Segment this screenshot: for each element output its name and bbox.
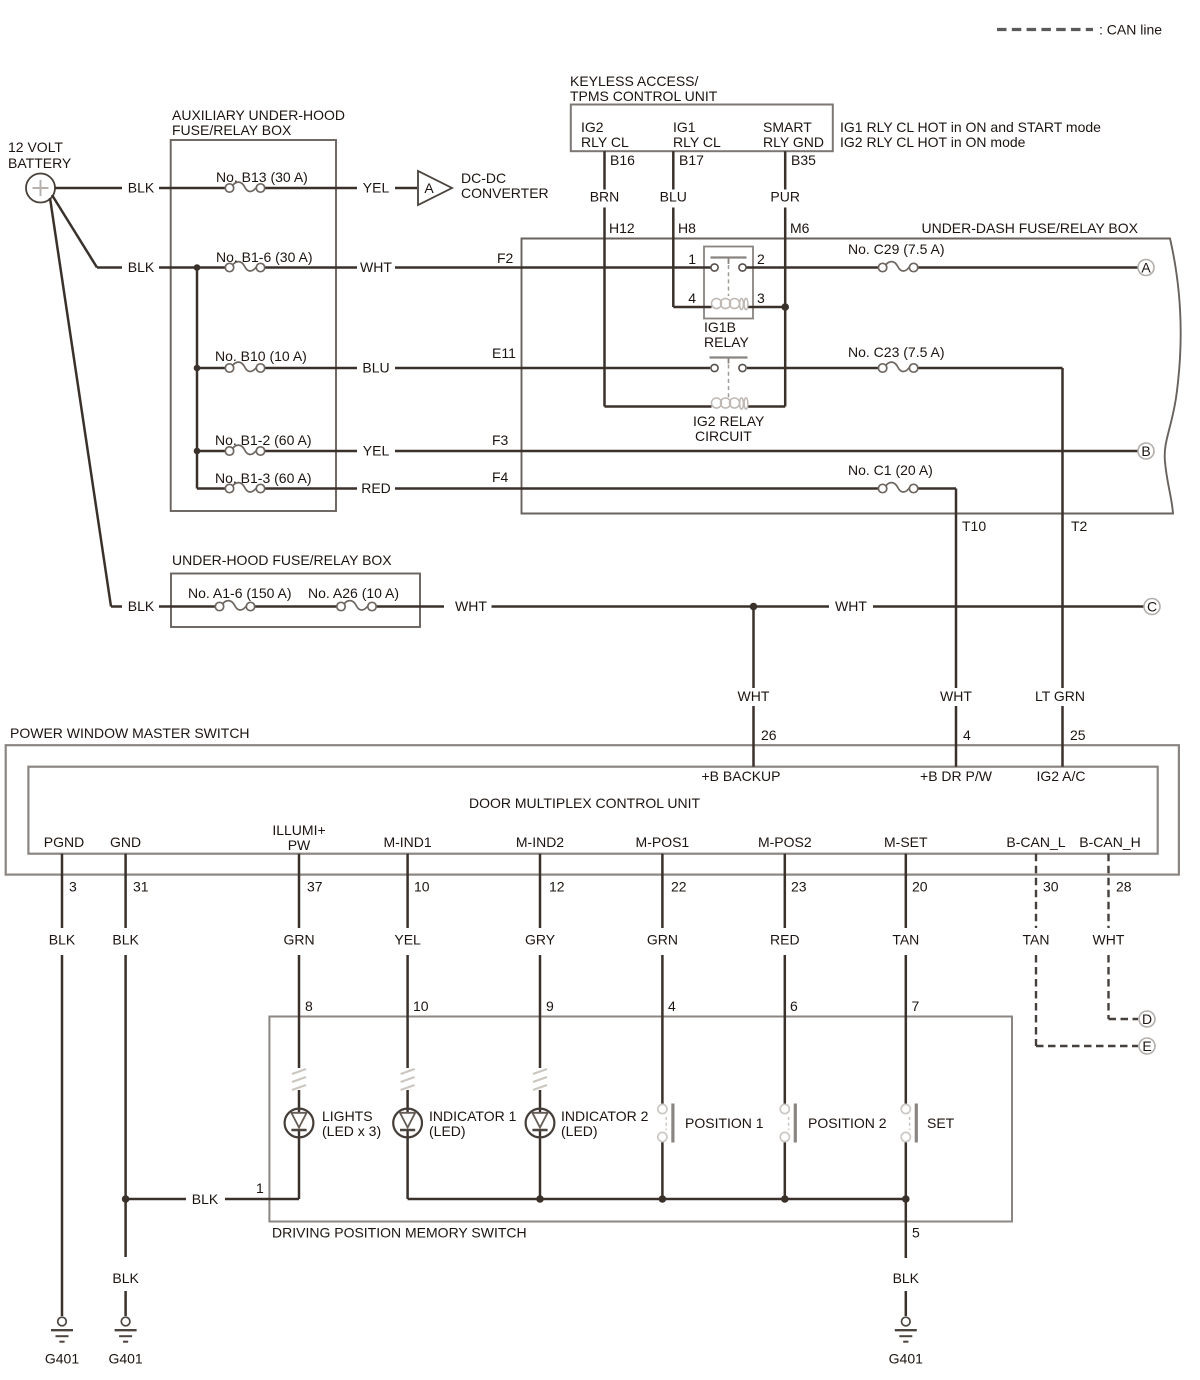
svg-text:F3: F3 bbox=[492, 432, 509, 448]
svg-text:KEYLESS ACCESS/: KEYLESS ACCESS/ bbox=[570, 73, 699, 89]
svg-text:IG1 RLY CL HOT in ON and START: IG1 RLY CL HOT in ON and START mode bbox=[840, 119, 1101, 135]
svg-text:T10: T10 bbox=[962, 518, 986, 534]
svg-text:GND: GND bbox=[110, 834, 141, 850]
svg-text:7: 7 bbox=[912, 998, 920, 1014]
svg-text:YEL: YEL bbox=[363, 180, 390, 196]
svg-text:4: 4 bbox=[668, 998, 676, 1014]
svg-text:YEL: YEL bbox=[363, 443, 390, 459]
svg-text:2: 2 bbox=[757, 251, 765, 267]
svg-text:TAN: TAN bbox=[1023, 932, 1050, 948]
svg-text:WHT: WHT bbox=[738, 688, 770, 704]
svg-text:SMART: SMART bbox=[763, 119, 812, 135]
svg-text:No. B13 (30 A): No. B13 (30 A) bbox=[216, 169, 308, 185]
svg-text:M-POS1: M-POS1 bbox=[636, 834, 690, 850]
svg-text:H12: H12 bbox=[609, 220, 635, 236]
svg-text:RED: RED bbox=[361, 480, 391, 496]
svg-text:PUR: PUR bbox=[770, 189, 800, 205]
svg-text:BRN: BRN bbox=[590, 189, 620, 205]
svg-text:D: D bbox=[1142, 1011, 1152, 1027]
svg-text:37: 37 bbox=[307, 879, 323, 895]
svg-text:RLY CL: RLY CL bbox=[581, 134, 629, 150]
svg-text:BLU: BLU bbox=[362, 360, 389, 376]
svg-text:E: E bbox=[1142, 1038, 1151, 1054]
svg-text:DOOR MULTIPLEX CONTROL UNIT: DOOR MULTIPLEX CONTROL UNIT bbox=[469, 795, 700, 811]
svg-text:POSITION 1: POSITION 1 bbox=[685, 1115, 764, 1131]
svg-text:DRIVING POSITION MEMORY SWITCH: DRIVING POSITION MEMORY SWITCH bbox=[272, 1225, 527, 1241]
svg-text:BLK: BLK bbox=[893, 1270, 920, 1286]
svg-text:PGND: PGND bbox=[44, 834, 84, 850]
svg-text:TPMS CONTROL UNIT: TPMS CONTROL UNIT bbox=[570, 88, 718, 104]
svg-text:BLU: BLU bbox=[660, 189, 687, 205]
svg-text:25: 25 bbox=[1070, 727, 1086, 743]
svg-text:B17: B17 bbox=[679, 152, 704, 168]
svg-text:12: 12 bbox=[549, 879, 565, 895]
svg-text:DC-DC: DC-DC bbox=[461, 170, 506, 186]
svg-text:INDICATOR 2: INDICATOR 2 bbox=[561, 1108, 649, 1124]
svg-text:M-POS2: M-POS2 bbox=[758, 834, 812, 850]
svg-text:20: 20 bbox=[912, 879, 928, 895]
svg-text:10: 10 bbox=[414, 879, 430, 895]
svg-text:ILLUMI+: ILLUMI+ bbox=[272, 822, 325, 838]
svg-text:LT GRN: LT GRN bbox=[1035, 688, 1085, 704]
svg-text:BLK: BLK bbox=[128, 180, 155, 196]
svg-text:RED: RED bbox=[770, 932, 800, 948]
svg-text:IG2 RLY CL HOT in ON mode: IG2 RLY CL HOT in ON mode bbox=[840, 134, 1026, 150]
svg-text:YEL: YEL bbox=[394, 932, 421, 948]
svg-text:IG1B: IG1B bbox=[704, 319, 736, 335]
svg-text:WHT: WHT bbox=[835, 598, 867, 614]
svg-text:5: 5 bbox=[912, 1225, 920, 1241]
svg-text:WHT: WHT bbox=[360, 259, 392, 275]
svg-text:TAN: TAN bbox=[892, 932, 919, 948]
svg-text:UNDER-DASH FUSE/RELAY BOX: UNDER-DASH FUSE/RELAY BOX bbox=[921, 220, 1138, 236]
svg-text:POSITION 2: POSITION 2 bbox=[808, 1115, 887, 1131]
svg-text:M-IND1: M-IND1 bbox=[383, 834, 431, 850]
svg-text:: CAN line: : CAN line bbox=[1099, 22, 1162, 38]
svg-text:BLK: BLK bbox=[49, 932, 76, 948]
svg-text:PW: PW bbox=[288, 837, 311, 853]
svg-text:30: 30 bbox=[1043, 879, 1059, 895]
svg-text:No. B1-2 (60 A): No. B1-2 (60 A) bbox=[215, 432, 312, 448]
svg-text:A: A bbox=[1141, 260, 1151, 276]
svg-text:No. B1-6 (30 A): No. B1-6 (30 A) bbox=[216, 249, 313, 265]
svg-text:IG2: IG2 bbox=[581, 119, 604, 135]
svg-text:RELAY: RELAY bbox=[704, 334, 750, 350]
svg-text:(LED): (LED) bbox=[561, 1123, 598, 1139]
svg-text:WHT: WHT bbox=[455, 598, 487, 614]
svg-text:6: 6 bbox=[790, 998, 798, 1014]
svg-text:23: 23 bbox=[791, 879, 807, 895]
svg-text:B-CAN_L: B-CAN_L bbox=[1006, 834, 1065, 850]
svg-text:1: 1 bbox=[688, 251, 696, 267]
svg-text:No. A26 (10 A): No. A26 (10 A) bbox=[308, 585, 399, 601]
svg-text:BLK: BLK bbox=[128, 598, 155, 614]
svg-text:4: 4 bbox=[688, 290, 696, 306]
svg-text:BLK: BLK bbox=[128, 259, 155, 275]
svg-text:(LED x 3): (LED x 3) bbox=[322, 1123, 381, 1139]
svg-text:WHT: WHT bbox=[940, 688, 972, 704]
svg-text:G401: G401 bbox=[108, 1351, 142, 1367]
svg-text:M6: M6 bbox=[790, 220, 810, 236]
svg-text:BATTERY: BATTERY bbox=[8, 155, 72, 171]
svg-text:INDICATOR 1: INDICATOR 1 bbox=[429, 1108, 517, 1124]
svg-text:POWER WINDOW MASTER SWITCH: POWER WINDOW MASTER SWITCH bbox=[10, 725, 250, 741]
svg-text:IG2 RELAY: IG2 RELAY bbox=[693, 413, 765, 429]
svg-text:B: B bbox=[1141, 443, 1150, 459]
svg-text:WHT: WHT bbox=[1093, 932, 1125, 948]
svg-text:RLY CL: RLY CL bbox=[673, 134, 721, 150]
svg-text:AUXILIARY UNDER-HOOD: AUXILIARY UNDER-HOOD bbox=[172, 107, 345, 123]
svg-text:No. B10 (10 A): No. B10 (10 A) bbox=[215, 348, 307, 364]
svg-text:No. C1 (20 A): No. C1 (20 A) bbox=[848, 462, 933, 478]
svg-text:+B BACKUP: +B BACKUP bbox=[702, 768, 781, 784]
svg-text:12 VOLT: 12 VOLT bbox=[8, 139, 63, 155]
svg-text:F4: F4 bbox=[492, 469, 509, 485]
svg-text:10: 10 bbox=[413, 998, 429, 1014]
svg-text:No. C23 (7.5 A): No. C23 (7.5 A) bbox=[848, 344, 945, 360]
svg-text:+B DR P/W: +B DR P/W bbox=[920, 768, 993, 784]
svg-text:3: 3 bbox=[69, 879, 77, 895]
svg-text:M-IND2: M-IND2 bbox=[516, 834, 564, 850]
svg-text:BLK: BLK bbox=[112, 932, 139, 948]
svg-text:GRN: GRN bbox=[283, 932, 314, 948]
svg-text:No. A1-6 (150 A): No. A1-6 (150 A) bbox=[188, 585, 292, 601]
svg-text:SET: SET bbox=[927, 1115, 955, 1131]
svg-text:BLK: BLK bbox=[192, 1191, 219, 1207]
svg-text:No. B1-3 (60 A): No. B1-3 (60 A) bbox=[215, 470, 312, 486]
svg-text:IG1: IG1 bbox=[673, 119, 696, 135]
svg-text:B35: B35 bbox=[791, 152, 816, 168]
svg-text:9: 9 bbox=[546, 998, 554, 1014]
svg-text:CIRCUIT: CIRCUIT bbox=[695, 428, 752, 444]
svg-text:22: 22 bbox=[671, 879, 687, 895]
svg-text:BLK: BLK bbox=[112, 1270, 139, 1286]
svg-text:IG2 A/C: IG2 A/C bbox=[1036, 768, 1085, 784]
svg-text:B-CAN_H: B-CAN_H bbox=[1079, 834, 1140, 850]
svg-text:C: C bbox=[1147, 599, 1157, 615]
svg-text:3: 3 bbox=[757, 290, 765, 306]
svg-text:No. C29 (7.5 A): No. C29 (7.5 A) bbox=[848, 241, 945, 257]
svg-text:B16: B16 bbox=[610, 152, 635, 168]
svg-text:(LED): (LED) bbox=[429, 1123, 466, 1139]
svg-text:FUSE/RELAY BOX: FUSE/RELAY BOX bbox=[172, 122, 292, 138]
svg-text:H8: H8 bbox=[678, 220, 696, 236]
svg-text:RLY GND: RLY GND bbox=[763, 134, 824, 150]
svg-text:F2: F2 bbox=[497, 250, 514, 266]
svg-text:1: 1 bbox=[256, 1180, 264, 1196]
svg-text:GRY: GRY bbox=[525, 932, 556, 948]
svg-text:LIGHTS: LIGHTS bbox=[322, 1108, 373, 1124]
svg-text:28: 28 bbox=[1116, 879, 1132, 895]
svg-text:A: A bbox=[424, 180, 434, 196]
svg-text:4: 4 bbox=[963, 727, 971, 743]
svg-text:G401: G401 bbox=[889, 1351, 923, 1367]
svg-text:M-SET: M-SET bbox=[884, 834, 928, 850]
svg-text:E11: E11 bbox=[492, 345, 516, 361]
svg-text:CONVERTER: CONVERTER bbox=[461, 185, 549, 201]
svg-text:26: 26 bbox=[761, 727, 777, 743]
svg-text:UNDER-HOOD FUSE/RELAY BOX: UNDER-HOOD FUSE/RELAY BOX bbox=[172, 552, 392, 568]
svg-text:G401: G401 bbox=[45, 1351, 79, 1367]
svg-text:T2: T2 bbox=[1071, 518, 1088, 534]
svg-text:GRN: GRN bbox=[647, 932, 678, 948]
svg-text:8: 8 bbox=[305, 998, 313, 1014]
svg-text:31: 31 bbox=[133, 879, 149, 895]
